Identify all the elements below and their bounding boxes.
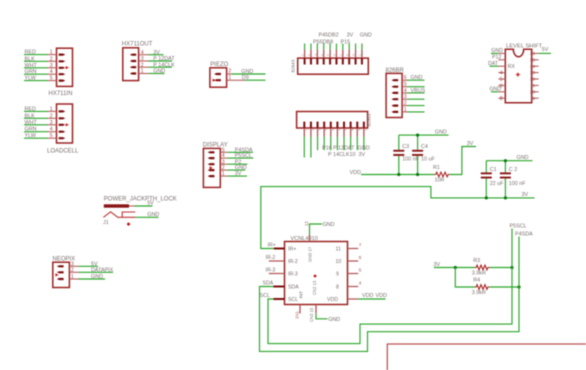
svg-text:R4: R4 bbox=[473, 278, 480, 284]
pin 2 of 82643 bbox=[310, 50, 312, 59]
wire net BLK to HX711IN pin 2 bbox=[24, 60, 48, 62]
LEVEL SHIFT right pin 12 bbox=[532, 78, 539, 80]
pin 5 of DISPLAY bbox=[208, 151, 215, 153]
right pin 6 bbox=[348, 260, 359, 262]
wire net GRN to LOADCELL pin 4 bbox=[24, 131, 48, 133]
bottom pin GND 13 bbox=[315, 305, 317, 314]
pin 4 bbox=[130, 54, 136, 56]
svg-text:LOADCELL: LOADCELL bbox=[47, 149, 79, 155]
junction C4 bottom bbox=[416, 173, 419, 176]
svg-text:3V: 3V bbox=[434, 262, 441, 268]
wire net WHT to HX711IN pin 3 bbox=[24, 67, 48, 69]
svg-text:POWER_JACKPTH_LOCK: POWER_JACKPTH_LOCK bbox=[104, 196, 177, 202]
LEVEL SHIFT right pin 13 bbox=[532, 72, 539, 74]
pin 9 of 82953 bbox=[356, 122, 358, 128]
wire pin 4 bbox=[402, 92, 407, 94]
top pin GND 12 bbox=[309, 235, 311, 242]
svg-text:RX: RX bbox=[508, 64, 516, 70]
svg-text:4: 4 bbox=[50, 127, 53, 133]
svg-text:VDD: VDD bbox=[350, 170, 361, 176]
resistor R3 bbox=[472, 258, 490, 277]
pin 2 bbox=[130, 66, 136, 68]
svg-text:5: 5 bbox=[359, 268, 362, 273]
wire net 3V from IR+ long rail bbox=[261, 187, 535, 249]
wire net GND top bbox=[310, 224, 323, 235]
svg-text:P 12DAT: P 12DAT bbox=[333, 145, 355, 151]
right pin 7 bbox=[348, 248, 359, 250]
wire stub pin 8 bbox=[350, 137, 352, 151]
wire net GND bbox=[139, 73, 149, 75]
pin 5 of 82643 bbox=[329, 50, 331, 59]
svg-text:VCNL4010: VCNL4010 bbox=[291, 236, 318, 242]
LEVEL SHIFT right pin 10 bbox=[532, 91, 539, 93]
wire stub pin 10 bbox=[363, 137, 365, 151]
pin 3 of 82643 bbox=[316, 50, 318, 59]
svg-text:3V: 3V bbox=[522, 192, 529, 198]
wire net VDD rail bbox=[361, 174, 434, 176]
svg-text:P12: P12 bbox=[492, 55, 501, 61]
svg-text:D9: D9 bbox=[242, 75, 249, 81]
polarity mark DISPLAY bbox=[210, 166, 213, 169]
wire R3 to P5SCL vertical bbox=[489, 267, 512, 269]
svg-text:RED: RED bbox=[25, 50, 36, 56]
power jack J1 POWER_JACKPTH_LOCK bbox=[103, 196, 177, 226]
svg-text:1N1: 1N1 bbox=[295, 311, 300, 319]
svg-text:P 12DAT: P 12DAT bbox=[153, 56, 175, 62]
wire net WHT to LOADCELL pin 3 bbox=[24, 124, 48, 126]
LEVEL SHIFT left pin 4 bbox=[498, 72, 505, 74]
wire net 3V after R1 bbox=[450, 147, 476, 175]
LEVEL SHIFT right pin 15 bbox=[532, 59, 539, 61]
polarity mark NEOPIX bbox=[55, 273, 58, 276]
connector HX711IN bbox=[24, 48, 73, 97]
svg-text:5: 5 bbox=[500, 77, 503, 83]
svg-text:IR-2: IR-2 bbox=[288, 259, 298, 265]
svg-text:P16: P16 bbox=[322, 145, 332, 151]
wire stub pin 3 bbox=[316, 44, 318, 50]
connector NEOPIX bbox=[53, 256, 114, 287]
svg-text:9: 9 bbox=[532, 96, 535, 102]
LEVEL SHIFT left pin 1 bbox=[498, 52, 505, 54]
svg-text:GRN: GRN bbox=[25, 69, 37, 75]
connector 82953 bbox=[297, 112, 372, 159]
svg-text:HX711OUT: HX711OUT bbox=[122, 42, 153, 48]
svg-text:9: 9 bbox=[336, 272, 339, 278]
pin 5 of 826BR bbox=[391, 86, 398, 88]
svg-text:2: 2 bbox=[50, 56, 53, 62]
svg-text:C1: C1 bbox=[490, 167, 497, 173]
IC LEVEL SHIFT bbox=[488, 44, 551, 103]
svg-text:10: 10 bbox=[336, 259, 342, 265]
pin 2 of NEOPIX bbox=[57, 271, 64, 273]
svg-text:P4SDA: P4SDA bbox=[515, 232, 533, 238]
pin 3 of DISPLAY bbox=[208, 163, 215, 165]
wire net 5V pin16 bbox=[539, 52, 551, 54]
pin 2 bbox=[214, 73, 221, 75]
wire net 3V bbox=[220, 175, 227, 177]
pin 10 of 82953 bbox=[363, 122, 365, 128]
pin IR+ bbox=[274, 248, 285, 250]
svg-text:82953: 82953 bbox=[367, 113, 372, 126]
wire net P 14CLK bbox=[139, 66, 149, 68]
red dot J1 bbox=[127, 223, 130, 226]
wire pin 2 bbox=[402, 105, 407, 107]
wire net YLW to HX711IN pin 5 bbox=[24, 80, 48, 82]
svg-text:3V: 3V bbox=[359, 152, 366, 158]
wire net GND bbox=[135, 216, 158, 218]
wire net 3V to R3 R4 bbox=[434, 267, 475, 269]
svg-text:P 14CLK: P 14CLK bbox=[153, 62, 175, 68]
svg-text:1: 1 bbox=[50, 106, 53, 112]
svg-text:4: 4 bbox=[500, 71, 503, 77]
svg-text:12: 12 bbox=[304, 221, 309, 226]
wire net DAT pin3 bbox=[490, 65, 499, 67]
svg-text:12: 12 bbox=[530, 77, 536, 83]
svg-text:3.9kR: 3.9kR bbox=[472, 290, 486, 296]
svg-text:VDD: VDD bbox=[362, 293, 373, 299]
svg-text:LEVEL SHIFT: LEVEL SHIFT bbox=[506, 44, 543, 50]
svg-text:DAT: DAT bbox=[488, 61, 499, 67]
pin IR-2 bbox=[269, 260, 285, 262]
pin SCL bbox=[273, 298, 284, 300]
polarity plus LEVEL SHIFT bbox=[516, 73, 520, 77]
svg-text:3.9kR: 3.9kR bbox=[472, 271, 486, 277]
svg-text:5: 5 bbox=[50, 133, 53, 139]
svg-text:10 uF: 10 uF bbox=[421, 157, 435, 163]
wire net GND bbox=[227, 73, 232, 75]
svg-text:5V: 5V bbox=[542, 47, 549, 53]
svg-text:GND: GND bbox=[91, 274, 103, 280]
svg-text:14: 14 bbox=[530, 64, 536, 70]
svg-text:11: 11 bbox=[530, 83, 535, 89]
svg-text:3V: 3V bbox=[467, 141, 474, 147]
pin 3 of 826BR bbox=[391, 98, 398, 100]
svg-text:IR+: IR+ bbox=[268, 243, 276, 249]
pin 10 of 82643 bbox=[361, 50, 363, 59]
svg-text:3V: 3V bbox=[153, 50, 160, 56]
pin 3 bbox=[59, 124, 66, 126]
svg-text:P15: P15 bbox=[341, 39, 351, 45]
svg-text:SCL: SCL bbox=[260, 293, 270, 299]
svg-text:7: 7 bbox=[359, 243, 362, 248]
wire stub pin 2 bbox=[310, 44, 312, 50]
pin 6 of 82643 bbox=[335, 50, 337, 59]
wire net GND pin7 bbox=[491, 91, 498, 93]
svg-text:6: 6 bbox=[359, 255, 362, 260]
svg-text:BLK: BLK bbox=[25, 113, 36, 119]
LEVEL SHIFT left pin 3 bbox=[498, 65, 505, 67]
connector DISPLAY bbox=[203, 142, 254, 187]
svg-text:P45DB2: P45DB2 bbox=[319, 33, 339, 39]
svg-text:GND: GND bbox=[360, 33, 372, 39]
svg-text:SDA: SDA bbox=[288, 285, 299, 291]
pin 1 of NEOPIX bbox=[57, 278, 64, 280]
LEVEL SHIFT left pin 6 bbox=[498, 84, 505, 86]
LEVEL SHIFT left pin 8 bbox=[498, 97, 505, 99]
svg-text:DISPLAY: DISPLAY bbox=[203, 142, 228, 148]
wire net D9 bbox=[227, 79, 245, 81]
LEVEL SHIFT left pin 2 bbox=[498, 59, 505, 61]
svg-text:P 14CLK10: P 14CLK10 bbox=[328, 152, 355, 158]
junction C1 bottom bbox=[485, 196, 488, 199]
svg-text:BLK: BLK bbox=[25, 56, 36, 62]
junction C2 bottom bbox=[504, 196, 507, 199]
svg-text:SDA: SDA bbox=[263, 281, 274, 287]
wire stub pin 6 bbox=[335, 44, 337, 50]
polarity mark LOADCELL bbox=[66, 123, 69, 126]
wire stub pin 3 bbox=[317, 137, 319, 151]
svg-text:GND: GND bbox=[411, 75, 423, 81]
svg-text:VBUS: VBUS bbox=[411, 88, 426, 94]
svg-text:R1: R1 bbox=[433, 165, 440, 171]
wire net GND pin1 bbox=[491, 52, 498, 54]
pin 1 bbox=[214, 79, 221, 81]
center red dot bbox=[314, 275, 317, 278]
wire branch to R4 bbox=[455, 268, 474, 288]
wire stub pin 9 bbox=[355, 44, 357, 50]
wire pin 5 bbox=[402, 86, 407, 88]
wire stub pin 10 bbox=[361, 44, 363, 50]
svg-text:C3: C3 bbox=[402, 144, 409, 150]
pin 4 bbox=[59, 131, 66, 133]
svg-text:VDD: VDD bbox=[376, 293, 387, 299]
svg-text:YLW: YLW bbox=[25, 76, 37, 82]
pin 1 of DISPLAY bbox=[208, 175, 215, 177]
pin 8 of 82643 bbox=[348, 50, 350, 59]
svg-text:GND: GND bbox=[147, 212, 159, 218]
pin 1 of 82953 bbox=[303, 122, 305, 128]
LEVEL SHIFT right pin 11 bbox=[532, 84, 539, 86]
pin 3 bbox=[130, 60, 136, 62]
pin 1 bbox=[59, 110, 66, 112]
junction R3 P5SCL bbox=[510, 266, 513, 269]
svg-text:15: 15 bbox=[530, 57, 536, 63]
bottom pin INT bbox=[299, 305, 301, 314]
pin 7 of 82953 bbox=[343, 122, 345, 128]
wire net 5V bbox=[135, 205, 153, 207]
wire stub pin 2 bbox=[310, 137, 312, 158]
pin 2 of 826BR bbox=[391, 105, 398, 107]
svg-text:GND: GND bbox=[153, 69, 165, 75]
svg-text:SCL: SCL bbox=[288, 297, 298, 303]
svg-text:NEOPIX: NEOPIX bbox=[53, 256, 76, 262]
pin 3 of NEOPIX bbox=[57, 265, 64, 267]
svg-text:PIEZO: PIEZO bbox=[210, 62, 228, 68]
connector PIEZO bbox=[210, 62, 266, 87]
pin 2 bbox=[59, 60, 66, 62]
svg-text:GRN: GRN bbox=[25, 127, 37, 133]
red bus wire bottom right bbox=[387, 344, 586, 370]
wire net GND bbox=[220, 169, 227, 171]
connector HX711OUT bbox=[122, 42, 176, 81]
svg-text:P5SCL: P5SCL bbox=[510, 223, 527, 229]
svg-text:P5SCL: P5SCL bbox=[235, 153, 252, 159]
wire net P5SCL bbox=[220, 157, 227, 159]
wire stub pin 5 bbox=[329, 44, 331, 50]
polarity mark HX711IN bbox=[66, 66, 69, 69]
svg-text:5: 5 bbox=[50, 76, 53, 82]
svg-text:GND: GND bbox=[323, 222, 335, 228]
LEVEL SHIFT left pin 7 bbox=[498, 91, 505, 93]
LEVEL SHIFT left pin 5 bbox=[498, 78, 505, 80]
wire net VDD bbox=[358, 298, 385, 300]
svg-text:10: 10 bbox=[530, 89, 536, 95]
svg-text:IR-2: IR-2 bbox=[266, 255, 276, 261]
svg-text:3V: 3V bbox=[235, 171, 242, 177]
pin 6 of 82953 bbox=[336, 122, 338, 128]
svg-text:CN3 15: CN3 15 bbox=[309, 307, 314, 322]
svg-text:DATAPIX: DATAPIX bbox=[91, 267, 114, 273]
pin 4 of 82643 bbox=[323, 50, 325, 59]
svg-text:GND: GND bbox=[328, 317, 340, 323]
svg-text:3: 3 bbox=[50, 63, 53, 69]
svg-text:GND: GND bbox=[241, 69, 253, 75]
wire pin 3 bbox=[402, 98, 407, 100]
capacitor C2 bbox=[500, 161, 526, 198]
right pin 5 bbox=[348, 273, 359, 275]
wire stub pin 1 bbox=[304, 44, 306, 50]
svg-text:HX711IN: HX711IN bbox=[49, 91, 73, 97]
pin SDA bbox=[273, 286, 284, 288]
svg-text:R3: R3 bbox=[473, 258, 480, 264]
pin 6 of 826BR bbox=[391, 79, 398, 81]
svg-text:GND: GND bbox=[490, 87, 502, 93]
wire R4 to P4SDA vertical bbox=[489, 286, 519, 288]
svg-text:4: 4 bbox=[50, 69, 53, 75]
svg-text:GND: GND bbox=[491, 48, 503, 54]
connector 82643 bbox=[291, 33, 372, 75]
svg-text:GND: GND bbox=[358, 145, 370, 151]
LEVEL SHIFT right pin 9 bbox=[532, 97, 539, 99]
connector LOADCELL bbox=[24, 104, 79, 155]
svg-text:P55DB8: P55DB8 bbox=[313, 39, 333, 45]
wire net RED to LOADCELL pin 1 bbox=[24, 110, 48, 112]
svg-text:INT: INT bbox=[299, 291, 304, 299]
LEVEL SHIFT right pin 16 bbox=[532, 52, 539, 54]
pin 4 of 826BR bbox=[391, 92, 398, 94]
pin 3 of 82953 bbox=[317, 122, 319, 128]
wire stub pin 6 bbox=[336, 137, 338, 151]
svg-text:22 uF: 22 uF bbox=[490, 181, 504, 187]
wire net GND bbox=[69, 278, 78, 280]
pin 4 of 82953 bbox=[323, 122, 325, 128]
svg-text:13: 13 bbox=[530, 70, 536, 76]
pin 1 of 826BR bbox=[391, 111, 398, 113]
pin 9 of 82643 bbox=[355, 50, 357, 59]
resistor R4 bbox=[472, 278, 490, 297]
wire stub pin 7 bbox=[342, 44, 344, 50]
wire pin 1 bbox=[402, 111, 407, 113]
pin VDD bbox=[348, 298, 359, 300]
wire pin 6 bbox=[402, 79, 407, 81]
svg-text:8: 8 bbox=[500, 96, 503, 102]
svg-text:3: 3 bbox=[50, 120, 53, 126]
pin 5 of 82953 bbox=[330, 122, 332, 128]
capacitor C1 bbox=[481, 161, 504, 198]
wire stub pin 9 bbox=[356, 137, 358, 151]
pin 2 bbox=[59, 117, 66, 119]
svg-text:5V: 5V bbox=[147, 201, 154, 207]
pin 5 bbox=[59, 80, 66, 82]
svg-text:11: 11 bbox=[336, 247, 341, 253]
junction R4 P4SDA bbox=[517, 285, 520, 288]
pin 2 of 82953 bbox=[310, 122, 312, 128]
svg-text:YLW: YLW bbox=[25, 133, 37, 139]
wire stub pin 5 bbox=[330, 137, 332, 151]
svg-text:3V: 3V bbox=[347, 33, 354, 39]
svg-text:CN2 13: CN2 13 bbox=[312, 280, 317, 295]
wire net P 12DAT bbox=[139, 60, 149, 62]
svg-text:82643: 82643 bbox=[291, 59, 296, 72]
wire net GND C3C4 top rail bbox=[399, 134, 449, 136]
pin 4 of DISPLAY bbox=[208, 157, 215, 159]
capacitor C3 bbox=[393, 135, 419, 174]
svg-text:10R: 10R bbox=[435, 178, 445, 184]
resistor R1 bbox=[433, 165, 450, 184]
wire stub pin 1 bbox=[303, 137, 305, 158]
IC VCNL4010 bbox=[260, 221, 387, 323]
pin 7 of 82643 bbox=[342, 50, 344, 59]
pin 1 bbox=[130, 72, 136, 74]
svg-text:J1: J1 bbox=[103, 220, 109, 226]
svg-text:WHT: WHT bbox=[25, 63, 38, 69]
pin 5 bbox=[59, 137, 66, 139]
svg-text:IR-3: IR-3 bbox=[266, 268, 276, 274]
pin 4 bbox=[59, 73, 66, 75]
junction C2 top bbox=[504, 159, 507, 162]
svg-text:100 nF: 100 nF bbox=[509, 181, 526, 187]
capacitor C4 bbox=[412, 135, 435, 174]
wire stub pin 7 bbox=[343, 137, 345, 151]
connector 826BR bbox=[386, 68, 426, 118]
pin 3 bbox=[59, 67, 66, 69]
wire net P2 bbox=[220, 163, 227, 165]
junction R3/R4 branch bbox=[454, 266, 457, 269]
svg-text:GND: GND bbox=[435, 130, 447, 136]
svg-text:4: 4 bbox=[359, 281, 362, 286]
wire net P4SDA bbox=[220, 151, 227, 153]
svg-text:GND: GND bbox=[517, 155, 529, 161]
wire net GND C1C2 rail bbox=[486, 160, 532, 162]
svg-text:WHT: WHT bbox=[25, 120, 38, 126]
wire net P4SDA (SDA pin to label) bbox=[260, 237, 520, 352]
pin 2 of DISPLAY bbox=[208, 169, 215, 171]
wire net RED to HX711IN pin 1 bbox=[24, 54, 48, 56]
polarity mark PIEZO bbox=[213, 79, 216, 82]
svg-text:8: 8 bbox=[336, 285, 339, 291]
junction C3 bottom bbox=[397, 173, 400, 176]
wire stub pin 8 bbox=[348, 44, 350, 50]
svg-text:RED: RED bbox=[25, 106, 36, 112]
wire net BLK to LOADCELL pin 2 bbox=[24, 117, 48, 119]
wire net GND bottom bbox=[316, 313, 328, 319]
right pin 4 bbox=[348, 286, 359, 288]
LEVEL SHIFT right pin 14 bbox=[532, 65, 539, 67]
svg-text:GND 1?: GND 1? bbox=[308, 246, 313, 262]
wire net 5V bbox=[69, 265, 78, 267]
svg-text:VDD: VDD bbox=[327, 297, 338, 303]
svg-text:2: 2 bbox=[50, 113, 53, 119]
svg-text:826BR: 826BR bbox=[386, 68, 405, 74]
pin IR-3 bbox=[269, 273, 285, 275]
barrel bar bbox=[104, 204, 129, 207]
wire net P5SCL (SCL pin to label) bbox=[268, 229, 512, 344]
wire net GRN to HX711IN pin 4 bbox=[24, 73, 48, 75]
pin 1 bbox=[59, 54, 66, 56]
svg-text:16: 16 bbox=[530, 51, 536, 57]
junction C4 top bbox=[416, 134, 419, 137]
svg-text:IR-3: IR-3 bbox=[288, 272, 298, 278]
